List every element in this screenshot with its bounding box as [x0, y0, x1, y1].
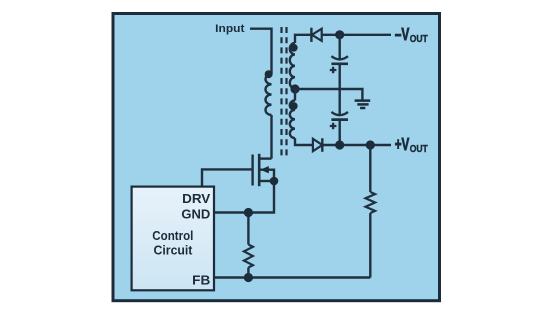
- diode D2: [313, 138, 322, 152]
- transformer T1 secondary top winding: [290, 43, 295, 89]
- schematic frame: [113, 14, 440, 301]
- junction dot: -V rail and C1: [335, 30, 344, 39]
- svg-text:OUT: OUT: [410, 144, 428, 155]
- transformer T1 primary winding: [265, 74, 271, 115]
- svg-text:Input: Input: [215, 23, 245, 35]
- wire: DRV to gate: [202, 169, 253, 186]
- svg-text:DRV: DRV: [182, 191, 211, 206]
- primary phasing dot: [265, 70, 273, 78]
- svg-text:Control: Control: [152, 228, 193, 243]
- resistor R1: [244, 213, 253, 278]
- svg-text:Circuit: Circuit: [154, 243, 194, 258]
- ground: [355, 101, 371, 108]
- wire: input to transformer primary: [250, 29, 272, 74]
- junction dot: FB and R1: [244, 273, 253, 282]
- wire: center tap rail to ground: [295, 89, 362, 100]
- svg-text:GND: GND: [181, 206, 210, 221]
- junction dot: +V rail and C2: [335, 140, 344, 149]
- secondary bottom phasing dot: [290, 102, 298, 110]
- capacitor C2: [330, 112, 348, 145]
- svg-text:OUT: OUT: [410, 34, 428, 45]
- label +VOUT: [395, 134, 428, 155]
- wire: secondary top end to diode D1: [295, 35, 310, 43]
- svg-text:FB: FB: [192, 273, 210, 288]
- diode D1: [311, 28, 321, 42]
- wire: secondary bottom end to diode D2: [295, 138, 313, 145]
- wire: D1 to -VOUT: [322, 34, 391, 36]
- label -VOUT: [395, 24, 428, 45]
- svg-text:–V: –V: [395, 24, 410, 44]
- junction dot: GND and R1: [244, 208, 253, 217]
- wire: D2 to +VOUT: [322, 144, 391, 146]
- wire: primary bottom to MOSFET drain: [270, 115, 272, 159]
- center tap junction dot: [290, 84, 299, 93]
- transformer core: [282, 27, 287, 156]
- MOSFET Q1: [253, 154, 274, 186]
- secondary top phasing dot: [290, 44, 298, 52]
- transformer T1 secondary bottom winding: [290, 101, 295, 139]
- junction dot: +V rail and R2: [366, 140, 375, 149]
- junction dot: source and body: [270, 177, 279, 186]
- control circuit box U1: [132, 187, 214, 291]
- resistor R2: [365, 145, 375, 278]
- capacitor C1: [330, 35, 348, 115]
- wire: FB line: [214, 276, 370, 278]
- wire: center tap connector: [294, 89, 296, 101]
- wire: GND line to MOSFET source: [214, 181, 274, 213]
- svg-text:+V: +V: [395, 134, 410, 154]
